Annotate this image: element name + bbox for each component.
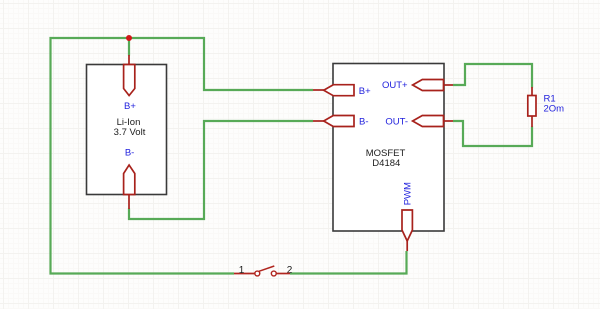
MOSFET pin lead OUT+ [444, 84, 454, 86]
MOSFET pin B+ (arrow pointing left) [324, 85, 354, 96]
wire: switch to MOSFET PWM net [290, 251, 407, 274]
svg-text:B-: B- [125, 148, 135, 159]
battery pin B+ (pentagon pointing down into body) [124, 65, 135, 96]
resistor R1 body [528, 96, 536, 117]
switch lead right [277, 273, 291, 275]
switch contact circle 1 [255, 271, 260, 276]
wire: OUT+ to R1 top [453, 64, 532, 88]
switch lead left [234, 273, 255, 275]
svg-text:2Om: 2Om [544, 104, 565, 115]
wire: stub from junction dot down to battery B+ lead [128, 38, 130, 56]
svg-text:3.7 Volt: 3.7 Volt [114, 127, 146, 138]
MOSFET body: D4184 module [333, 64, 444, 232]
MOSFET pin lead PWM [406, 241, 408, 252]
switch contact circle 2 [271, 271, 276, 276]
svg-text:OUT-: OUT- [385, 116, 408, 127]
resistor R1 lead top [531, 87, 533, 96]
svg-text:B-: B- [359, 116, 369, 127]
switch lever [259, 266, 274, 271]
wire: battery B- to MOSFET B- net [129, 121, 313, 219]
MOSFET pin OUT+ (arrow pointing left into body) [413, 80, 444, 91]
wire: battery B+ net (top bus, left vertical, bottom-left bus, drop to MOSFET B+) [51, 38, 314, 274]
battery pin lead B- [128, 195, 130, 210]
battery body: Li-Ion 3.7 Volt [87, 65, 167, 195]
svg-text:OUT+: OUT+ [382, 80, 408, 91]
MOSFET pin lead OUT- [444, 120, 454, 122]
MOSFET pin lead B- [313, 120, 324, 122]
junction node: battery B+ / top bus [126, 35, 132, 41]
MOSFET pin B- (arrow pointing left) [324, 116, 354, 127]
svg-text:B+: B+ [124, 101, 136, 112]
battery pin lead B+ [128, 55, 130, 65]
resistor R1 lead bottom [531, 116, 533, 127]
svg-text:PWM: PWM [403, 182, 414, 205]
svg-text:1: 1 [239, 265, 245, 276]
svg-text:B+: B+ [359, 86, 371, 97]
battery pin B- (pentagon pointing up into body) [124, 165, 135, 195]
MOSFET pin PWM (pentagon pointing down out of body) [402, 210, 412, 241]
svg-text:D4184: D4184 [372, 158, 400, 169]
wire: OUT- to R1 bottom [453, 121, 532, 146]
MOSFET pin lead B+ [313, 89, 324, 91]
MOSFET pin OUT- (arrow pointing left into body) [413, 116, 444, 127]
